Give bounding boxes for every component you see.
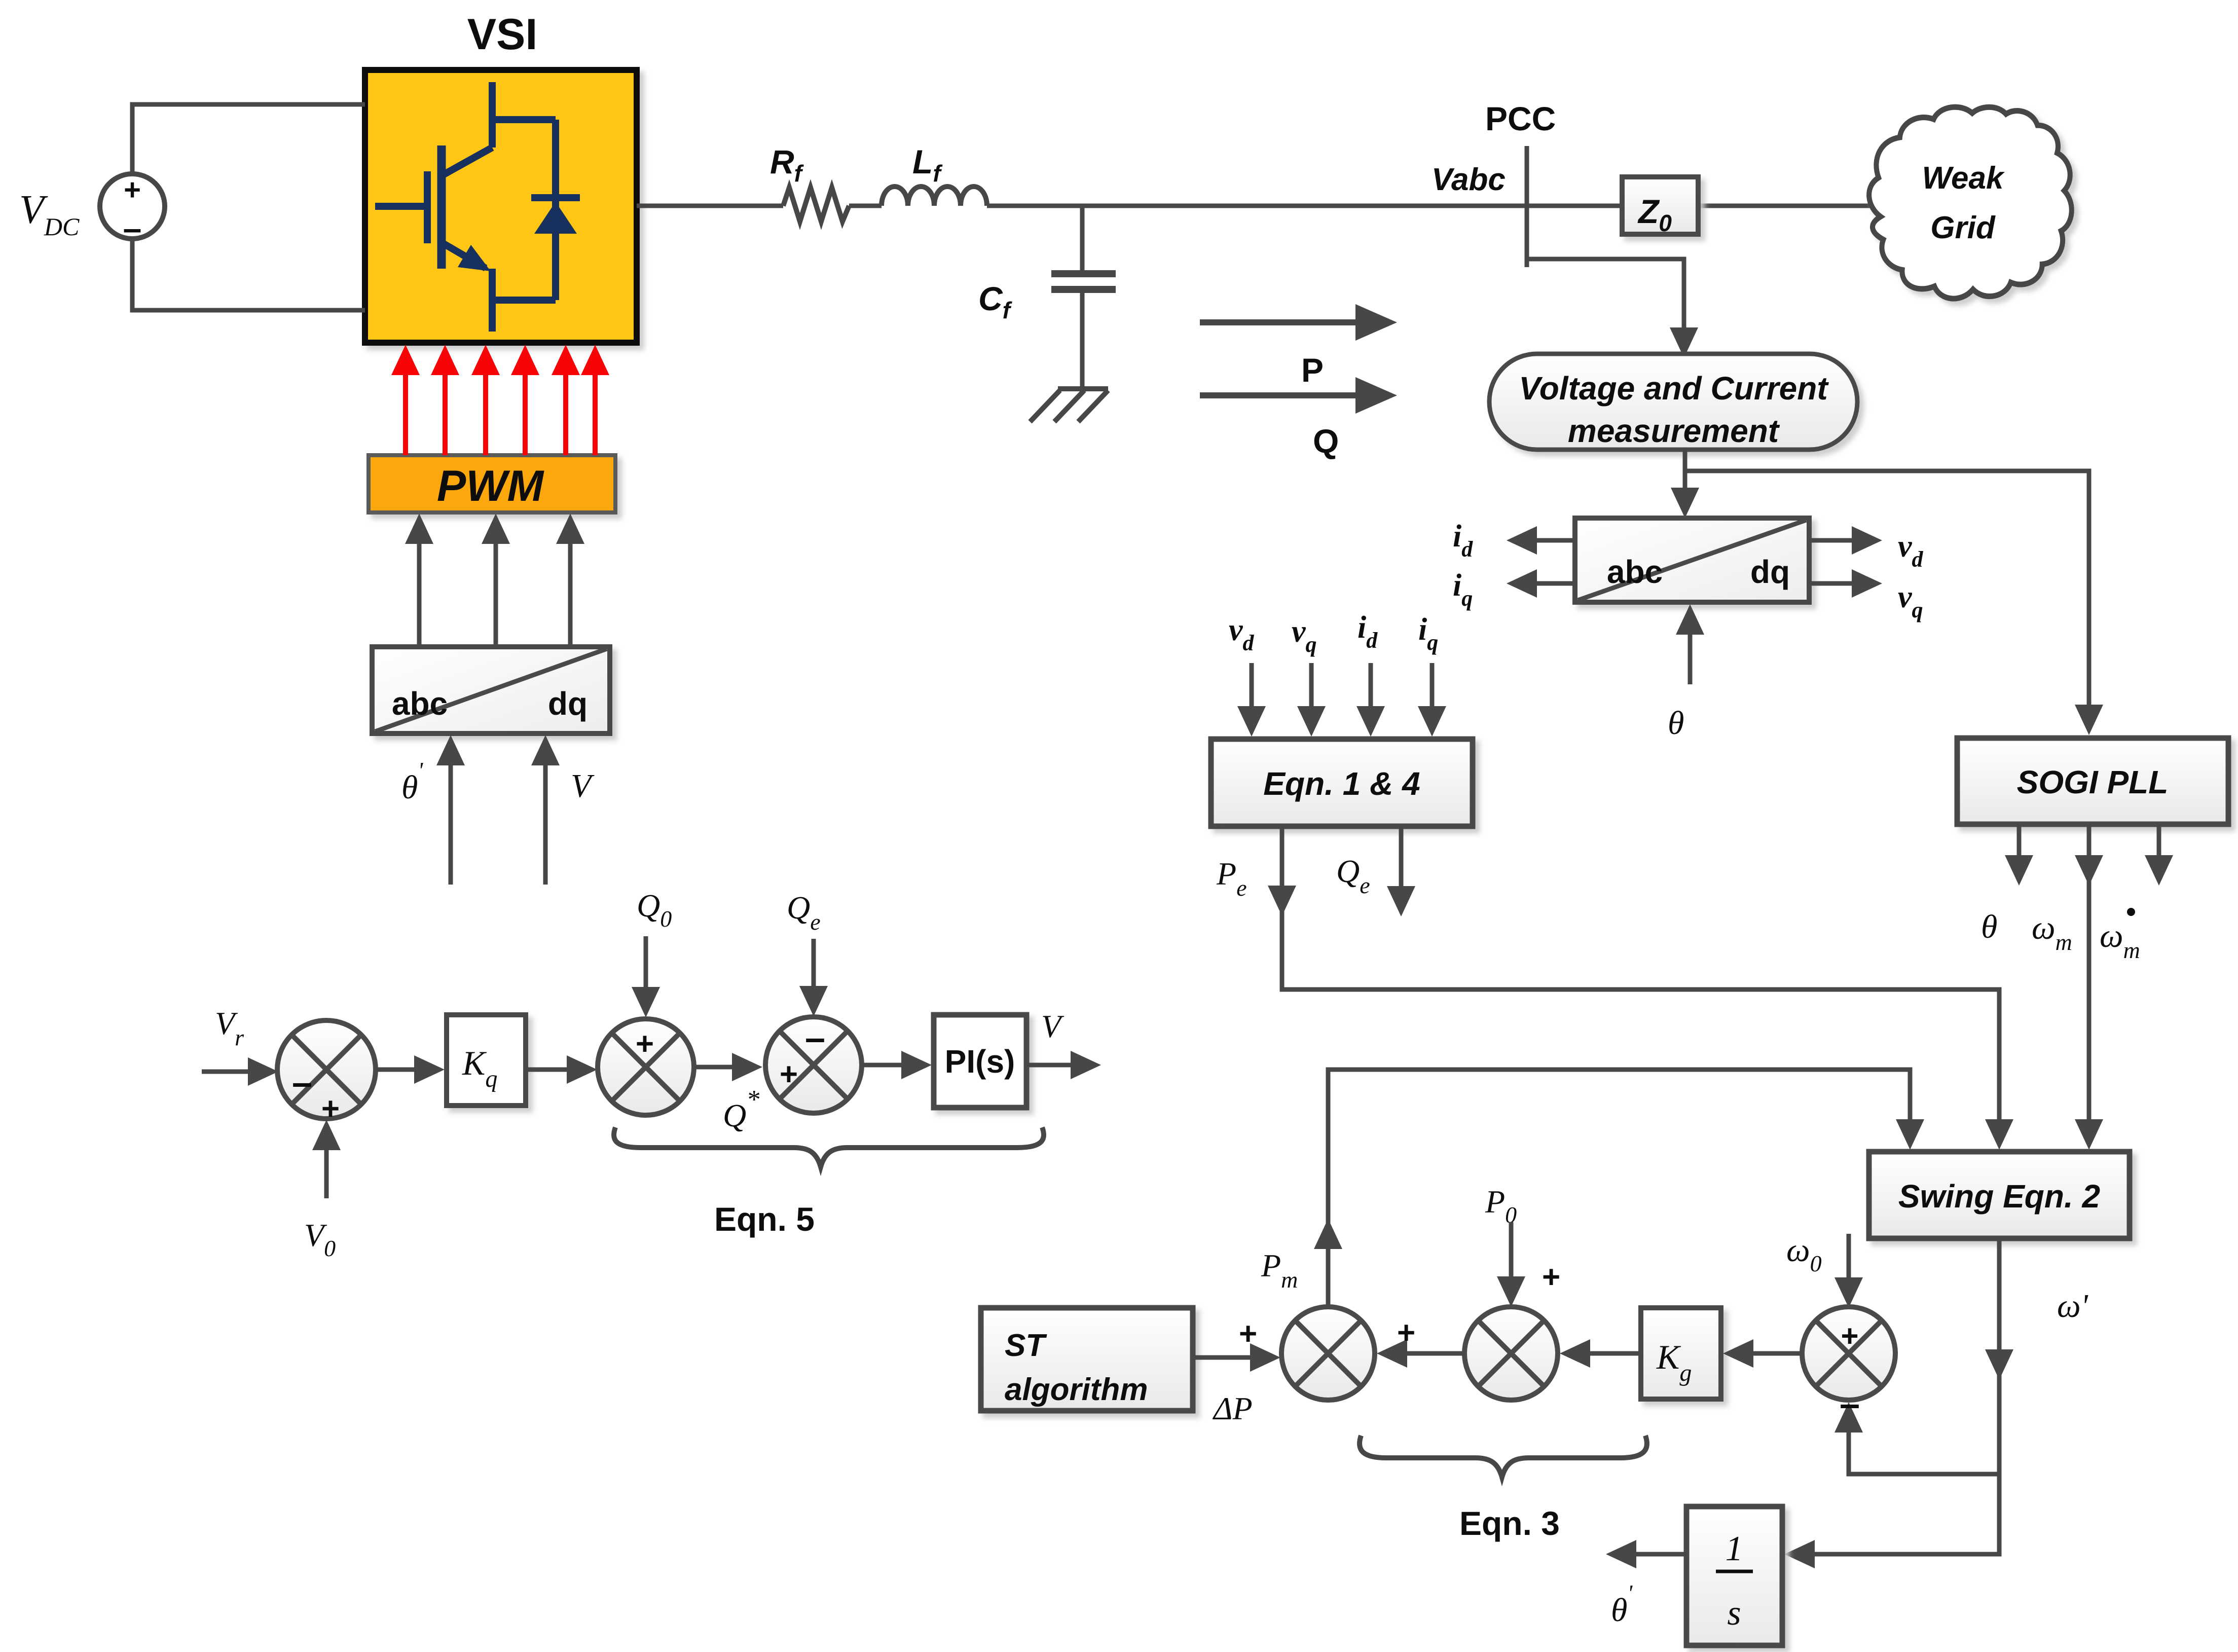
impedance Z0 box	[1622, 177, 1698, 234]
arrow middle sum to left sum	[1404, 1351, 1464, 1356]
svg-text:s: s	[1727, 1594, 1741, 1633]
wire iq input	[1430, 663, 1435, 709]
diode D1 cathode bar	[531, 194, 580, 201]
transistor Q1 (IGBT with antiparallel diode inside VSI)	[375, 82, 556, 332]
wire SOGI output wm-dot	[2157, 824, 2161, 858]
svg-text:PWM: PWM	[437, 462, 545, 510]
inductor Lf	[882, 187, 987, 206]
svg-text:Eqn. 3: Eqn. 3	[1459, 1504, 1560, 1542]
arrow Q0-sum to Qe-sum	[694, 1065, 735, 1070]
arrow V into abc/dq	[543, 763, 548, 885]
weak grid cloud	[1869, 107, 2072, 299]
arrow output id	[1535, 538, 1575, 543]
svg-text:Vabc: Vabc	[1432, 162, 1506, 197]
summing junction Q0	[598, 1019, 694, 1115]
summing junction Qe	[765, 1017, 862, 1113]
svg-text:+: +	[124, 173, 141, 206]
block Kq	[447, 1015, 526, 1106]
svg-text:+: +	[1239, 1316, 1257, 1351]
block integrator 1/s	[1686, 1507, 1782, 1645]
brace Eqn. 5	[614, 1127, 1044, 1167]
svg-text:dq: dq	[1750, 554, 1790, 590]
wire Qe output	[1399, 826, 1404, 888]
wire Pe output	[1282, 826, 1999, 1122]
summing junction voltage (Vr-V0)	[277, 1020, 376, 1119]
svg-text:Swing Eqn. 2: Swing Eqn. 2	[1898, 1178, 2100, 1215]
capacitor Cf plates	[1051, 270, 1116, 277]
svg-text:VSI: VSI	[467, 10, 538, 59]
svg-text:Grid: Grid	[1930, 210, 1996, 245]
summing junction middle	[1464, 1307, 1558, 1400]
wire vq input	[1309, 663, 1314, 709]
block ST algorithm	[981, 1308, 1193, 1411]
wire PCC branch down	[1527, 259, 1684, 331]
block PI(s)	[934, 1015, 1026, 1108]
arrow P flow	[1200, 319, 1359, 325]
wire DC negative	[132, 239, 365, 310]
transistor emitter arrowhead	[458, 245, 491, 271]
wire VSI output to resistor	[637, 204, 783, 208]
svg-text:+: +	[780, 1057, 798, 1092]
arrow Vr input	[202, 1070, 251, 1074]
block Eqn. 1 & 4	[1211, 739, 1473, 826]
svg-text:+: +	[1542, 1260, 1560, 1295]
svg-text:ω': ω'	[2057, 1288, 2089, 1325]
wire id input	[1369, 663, 1373, 709]
arrow V0 input	[324, 1148, 329, 1198]
svg-text:ST: ST	[1005, 1328, 1047, 1363]
arrow Qe input	[812, 939, 816, 988]
wire omega feedback to sum	[1849, 1430, 1999, 1474]
svg-text:–: –	[1840, 1384, 1860, 1424]
arrow output vd	[1809, 538, 1853, 543]
wire omega-prime output of swing	[1812, 1238, 1999, 1554]
wire resistor to inductor	[849, 204, 882, 208]
svg-text:measurement: measurement	[1568, 413, 1780, 449]
VSI inverter block	[365, 70, 637, 343]
svg-text:Weak: Weak	[1922, 161, 2005, 196]
summing junction omega (right)	[1802, 1307, 1895, 1400]
summing junction left (Pm)	[1281, 1307, 1375, 1400]
source VDC circle	[100, 174, 165, 239]
block SOGI PLL	[1957, 738, 2228, 824]
arrow theta-prime into abc/dq	[449, 763, 453, 885]
svg-text:Voltage and Current: Voltage and Current	[1519, 370, 1829, 407]
svg-text:–: –	[292, 1062, 312, 1103]
svg-text:Eqn. 5: Eqn. 5	[714, 1200, 815, 1238]
wire abc/dq to PWM (3 arrows)	[419, 541, 570, 647]
arrow omega0 into sum	[1847, 1234, 1851, 1279]
svg-text:+: +	[321, 1091, 340, 1126]
wire vd input	[1250, 663, 1254, 709]
wire capacitor to ground	[1080, 293, 1085, 389]
arrow PI output V	[1026, 1063, 1074, 1068]
node PCC bus tick	[1525, 146, 1529, 267]
svg-text:θ: θ	[1981, 908, 1997, 945]
wire Pm feedback into swing	[1328, 1070, 1910, 1307]
arrow theta input	[1688, 632, 1693, 684]
brace Eqn. 3	[1360, 1436, 1647, 1477]
svg-text:abc: abc	[392, 685, 448, 722]
svg-text:Q: Q	[1313, 422, 1339, 460]
svg-text:P: P	[1301, 351, 1324, 389]
node capacitor tap wire	[1080, 206, 1085, 270]
svg-text:–: –	[805, 1018, 825, 1058]
arrow Q0 input	[644, 936, 648, 989]
arrow omega-sum to Kg	[1750, 1351, 1802, 1356]
wire SOGI output theta	[2017, 824, 2022, 858]
block Kg	[1641, 1308, 1721, 1399]
arrow Q flow	[1200, 392, 1359, 398]
svg-text:dq: dq	[548, 685, 588, 722]
resistor Rf	[783, 188, 849, 222]
wire SOGI output wm (continues to swing eqn)	[2087, 824, 2092, 1122]
arrow Kg to middle sum	[1587, 1351, 1641, 1356]
svg-text:+: +	[1841, 1319, 1858, 1353]
block abc/dq transform (control side)	[372, 647, 610, 733]
arrow Kq to Q0 sum	[526, 1068, 570, 1072]
diode D1 triangle	[534, 202, 577, 234]
svg-text:SOGI PLL: SOGI PLL	[2017, 764, 2169, 800]
block PWM	[369, 455, 615, 512]
wire gate pulses (red arrows PWM to VSI)	[406, 373, 595, 455]
arrow ST to left sum	[1193, 1355, 1253, 1360]
arrow output iq	[1535, 581, 1575, 586]
svg-text:+: +	[636, 1026, 654, 1061]
svg-text:V: V	[571, 767, 595, 804]
block abc/dq transform (measurement side)	[1575, 518, 1809, 602]
svg-text:abc: abc	[1607, 554, 1663, 590]
svg-text:Eqn. 1 & 4: Eqn. 1 & 4	[1263, 765, 1420, 802]
arrow P0 into middle sum	[1509, 1222, 1514, 1278]
arrow sum to Kq	[376, 1068, 417, 1072]
svg-text:PCC: PCC	[1485, 100, 1556, 137]
svg-text:1: 1	[1726, 1529, 1743, 1568]
block Swing Eqn. 2	[1869, 1152, 2130, 1238]
arrow output vq	[1809, 581, 1853, 586]
block voltage and current measurement	[1489, 354, 1857, 450]
arrow integrator output theta-prime	[1635, 1552, 1686, 1557]
wire DC positive	[132, 104, 365, 174]
svg-text:algorithm: algorithm	[1005, 1372, 1148, 1407]
wire measurement outputs	[1683, 450, 1687, 491]
svg-text:θ: θ	[1668, 705, 1684, 742]
ground	[1030, 389, 1108, 422]
svg-text:ΔP: ΔP	[1212, 1390, 1253, 1426]
svg-text:PI(s): PI(s)	[945, 1043, 1015, 1080]
svg-text:+: +	[1397, 1315, 1415, 1350]
wire inductor to grid	[987, 204, 1870, 208]
arrow Qe-sum to PI	[862, 1063, 904, 1068]
